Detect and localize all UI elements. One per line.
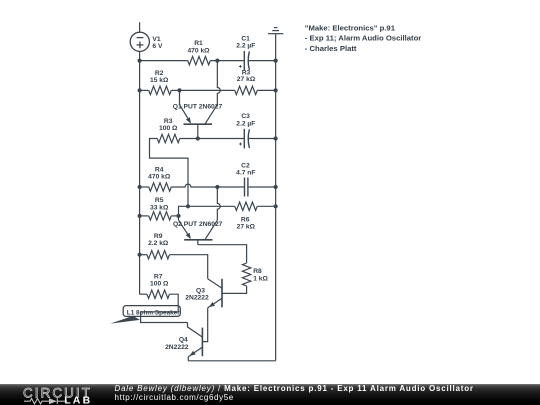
junction right rail / C2: [274, 185, 278, 189]
junction right rail / C1: [274, 59, 278, 63]
svg-text:4.7 nF: 4.7 nF: [236, 170, 255, 177]
wire: [171, 215, 178, 217]
transistor Q3: [208, 279, 222, 308]
svg-text:470 kΩ: 470 kΩ: [187, 47, 210, 54]
wire: [180, 138, 244, 140]
svg-text:100 Ω: 100 Ω: [150, 281, 169, 288]
junction left rail / R4: [138, 185, 142, 189]
wire: [140, 215, 149, 217]
footer bar: [0, 384, 540, 405]
svg-text:2.2 kΩ: 2.2 kΩ: [148, 240, 169, 247]
capacitor C3: [239, 129, 249, 149]
wire: [249, 138, 276, 140]
resistor R6: [235, 202, 258, 210]
svg-text:R1: R1: [194, 40, 203, 47]
ground: [268, 28, 283, 34]
junction right rail / R6: [274, 204, 278, 208]
speaker L1 callout box: [123, 306, 180, 317]
svg-text:R8: R8: [253, 268, 262, 275]
svg-text:27 kΩ: 27 kΩ: [237, 223, 256, 230]
svg-text:470 kΩ: 470 kΩ: [148, 173, 171, 180]
junction R4 / C2 / Q2 gate wire: [215, 185, 219, 189]
svg-text:C3: C3: [241, 113, 250, 120]
junction left rail / R9: [138, 253, 142, 257]
svg-text:6 V: 6 V: [152, 43, 163, 50]
wire Q3 emitter to Q4 base: [202, 308, 207, 342]
resistor R3 27k: [235, 86, 258, 94]
wire with hop over vertical: [171, 184, 217, 187]
wire L-shape from R3 to lower node: [150, 139, 189, 207]
junction Q1 cathode / R3 / C3: [196, 136, 200, 140]
junction R1 / C1 / Q1 gate wire: [215, 59, 219, 63]
junction left rail / R2: [138, 88, 142, 92]
svg-text:V1: V1: [152, 36, 160, 43]
resistor R9: [147, 251, 170, 259]
resistor R2: [149, 86, 172, 94]
resistor R8: [242, 263, 250, 286]
svg-text:15 kΩ: 15 kΩ: [150, 77, 169, 84]
wire: [198, 245, 247, 263]
svg-text:C1: C1: [241, 36, 250, 43]
svg-text:2.2 µF: 2.2 µF: [236, 120, 255, 127]
left rail wire: [139, 51, 141, 294]
wire: [249, 60, 276, 62]
resistor R7: [147, 290, 170, 298]
svg-text:"Make: Electronics" p.91: "Make: Electronics" p.91: [305, 23, 396, 32]
wire: [140, 254, 147, 256]
bottom wire: [188, 360, 275, 362]
svg-text:27 kΩ: 27 kΩ: [237, 76, 256, 83]
wire: [217, 186, 243, 188]
junction R3 branch / R5-R6 wire: [186, 204, 190, 208]
resistor R1: [188, 56, 211, 64]
junction left rail / R5: [138, 214, 142, 218]
wire with hop: [217, 187, 220, 220]
wire stub above V1: [139, 22, 141, 32]
junction right rail / R3 27k: [274, 88, 278, 92]
svg-text:2.2 µF: 2.2 µF: [236, 43, 255, 50]
svg-text:- Exp 11; Alarm Audio Oscillat: - Exp 11; Alarm Audio Oscillator: [305, 34, 421, 43]
wire: [257, 205, 275, 207]
wire: [140, 89, 149, 91]
svg-text:- Charles Platt: - Charles Platt: [305, 44, 357, 53]
svg-text:100 Ω: 100 Ω: [159, 125, 178, 132]
svg-text:2N2222: 2N2222: [185, 294, 209, 301]
wire: [140, 60, 188, 62]
wire through speaker label: [141, 306, 188, 323]
url: [115, 393, 234, 402]
capacitor C2: [245, 178, 248, 197]
wire: [179, 206, 235, 216]
junction R2 / Q1 anode: [177, 88, 181, 92]
transistor Q2: [179, 216, 218, 245]
wire: [169, 294, 178, 312]
resistor R5: [149, 212, 172, 220]
svg-text:Q4: Q4: [179, 337, 188, 344]
voltage source V1: [130, 32, 149, 51]
svg-text:LAB: LAB: [64, 394, 92, 405]
transistor Q1: [180, 90, 218, 138]
svg-text:L1 8ohm Speaker: L1 8ohm Speaker: [127, 309, 180, 316]
wire to Q3 collector: [169, 255, 207, 279]
credit line: [115, 384, 474, 393]
wire with hop: [217, 61, 220, 105]
resistor R3 100: [157, 134, 180, 142]
wire with junction to Q1 anode: [180, 89, 235, 91]
junction R5 / Q2 anode: [176, 214, 180, 218]
wire: [249, 186, 276, 188]
capacitor C1: [239, 51, 250, 71]
junction left rail / R1 / V1: [138, 59, 142, 63]
speaker L1 pointer: [110, 316, 140, 324]
svg-text:1 kΩ: 1 kΩ: [253, 276, 268, 283]
right rail wire: [275, 34, 277, 361]
wire: [210, 60, 243, 62]
svg-text:33 kΩ: 33 kΩ: [150, 204, 169, 211]
wire: [140, 186, 149, 188]
transistor Q4: [188, 323, 203, 361]
wire: [171, 89, 179, 91]
svg-text:2N2222: 2N2222: [165, 344, 189, 351]
svg-text:R5: R5: [155, 197, 164, 204]
resistor R4: [149, 183, 172, 191]
CircuitLab logo: [0, 384, 110, 405]
wire: [257, 89, 275, 91]
wire: [140, 293, 147, 295]
wire: [222, 286, 247, 293]
junction right rail / C3: [274, 136, 278, 140]
